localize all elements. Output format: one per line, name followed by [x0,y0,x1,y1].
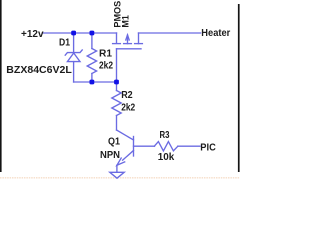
svg-text:NPN: NPN [100,150,120,161]
wire R2 bottom lead [116,116,118,131]
junction dot divider/R1 [90,80,95,85]
svg-text:10k: 10k [158,152,175,163]
svg-text:R3: R3 [160,130,170,141]
svg-text:R1: R1 [99,49,112,60]
svg-text:PIC: PIC [200,142,216,153]
svg-text:2k2: 2k2 [99,61,113,72]
wire R1 bottom lead [91,74,93,83]
svg-text:M1: M1 [120,15,130,27]
wire R2 top lead [116,82,118,91]
svg-text:2k2: 2k2 [121,103,135,114]
transistor Q1 NPN [117,130,134,172]
wire +12v supply rail [43,32,117,34]
wire D1 top lead [73,33,75,53]
transistor M1 PMOS body [113,33,143,49]
svg-text:+12v: +12v [21,29,44,40]
wire gate-divider junction rail [74,81,117,83]
zener diode D1 [65,50,82,82]
svg-text:Heater: Heater [201,28,230,39]
wire M1 source stub [116,33,118,43]
wire R1 top lead [91,33,93,49]
wire drain to Heater [139,32,201,34]
svg-text:D1: D1 [59,38,70,49]
wire M1 gate drop [116,49,118,82]
ground symbol [110,172,124,178]
wire R3 to PIC [178,145,200,147]
svg-text:R2: R2 [121,90,133,101]
resistor R3 [154,142,178,151]
svg-text:Q1: Q1 [108,136,120,147]
svg-text:BZX84C6V2L: BZX84C6V2L [6,65,72,76]
wire Q1 base to R3 [134,145,155,147]
junction dot supply/R1 [90,31,95,36]
junction dot divider/gate/R2 [114,80,119,85]
junction dot supply/D1 [71,31,76,36]
resistor R2 [112,91,121,116]
resistor R1 [87,49,96,74]
